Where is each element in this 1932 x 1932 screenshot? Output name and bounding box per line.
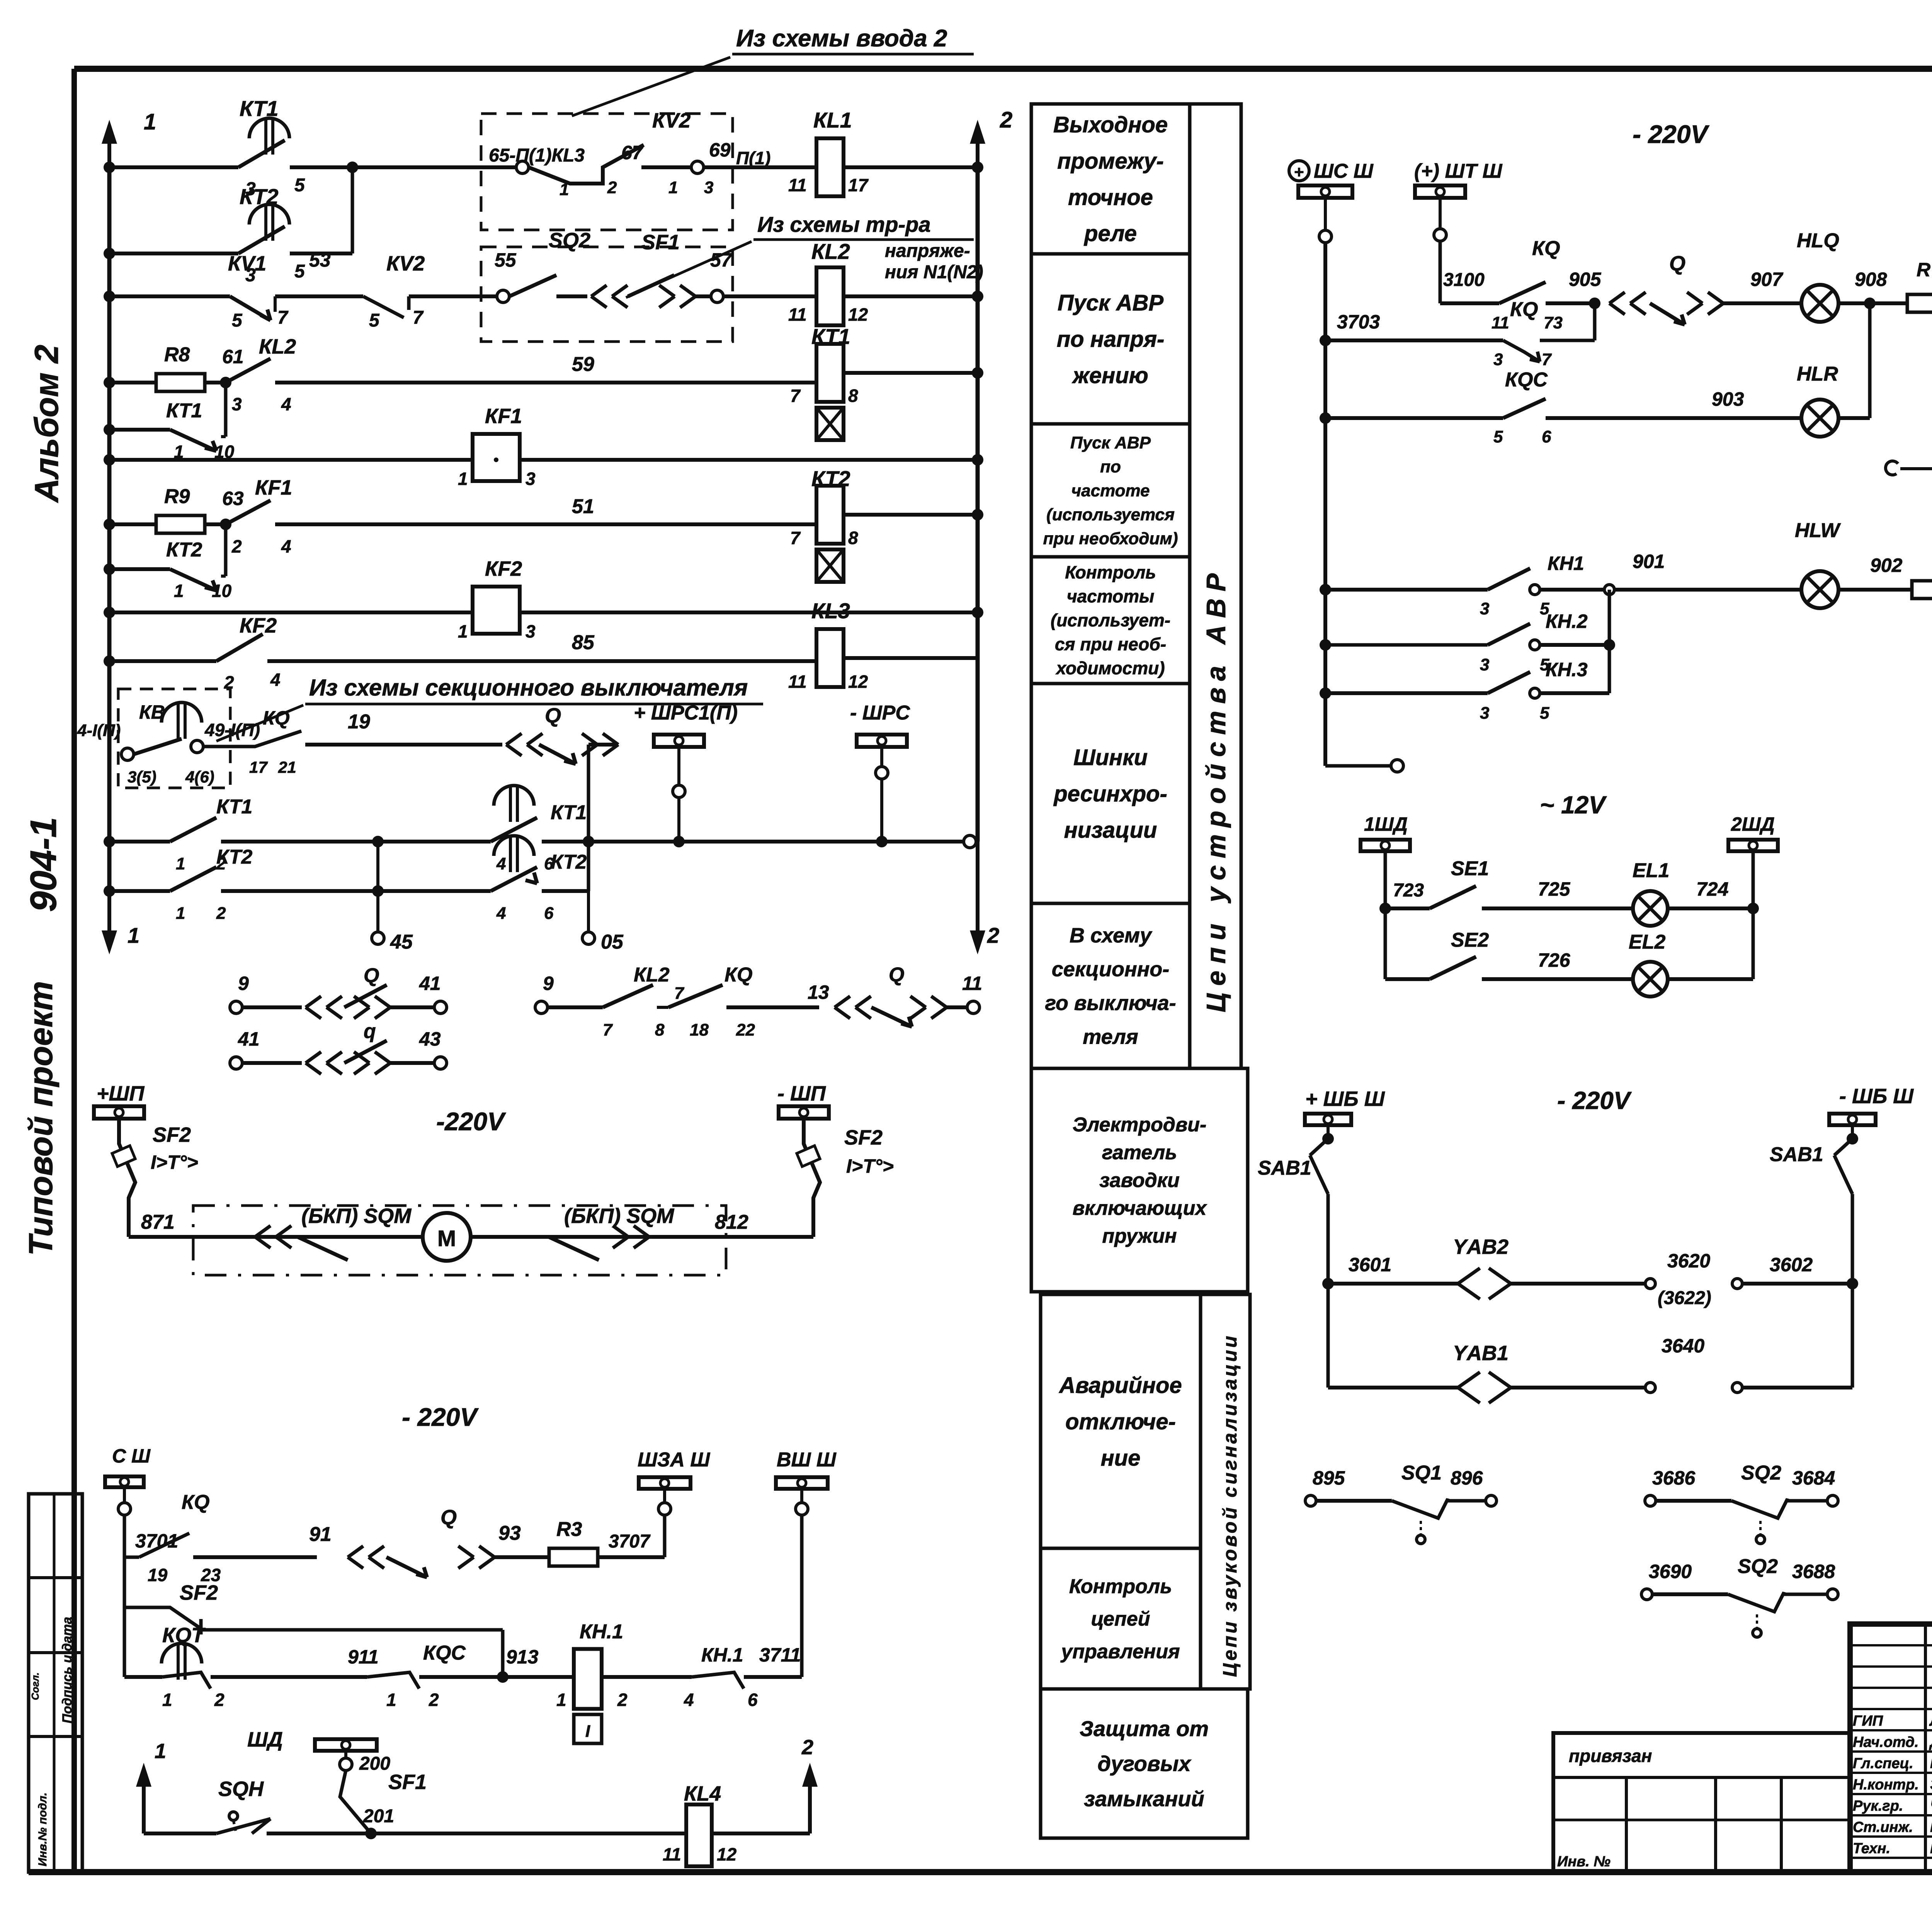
- svg-text:Ст.инж.: Ст.инж.: [1853, 1819, 1913, 1835]
- svg-text:200: 200: [359, 1753, 390, 1774]
- svg-text:12: 12: [848, 304, 868, 325]
- svg-text:2: 2: [214, 1690, 224, 1710]
- svg-text:Из схемы ввода 2: Из схемы ввода 2: [736, 25, 947, 52]
- svg-text:91: 91: [309, 1523, 332, 1546]
- svg-text:3684: 3684: [1792, 1467, 1835, 1489]
- svg-text:17: 17: [249, 758, 268, 776]
- svg-text:59: 59: [572, 353, 594, 376]
- svg-text:КF1: КF1: [485, 405, 522, 428]
- svg-text:(используется: (используется: [1046, 505, 1175, 524]
- svg-text:Цепи устройства АВР: Цепи устройства АВР: [1201, 566, 1231, 1012]
- svg-text:КL2: КL2: [259, 335, 296, 358]
- svg-text:871: 871: [141, 1211, 175, 1233]
- svg-text:3686: 3686: [1652, 1467, 1696, 1489]
- svg-text:SАВ1: SАВ1: [1258, 1157, 1311, 1179]
- svg-text:КL2: КL2: [811, 239, 850, 264]
- svg-text:1: 1: [174, 581, 184, 601]
- svg-text:I>Т°>: I>Т°>: [846, 1155, 894, 1177]
- svg-text:КQС: КQС: [1505, 369, 1548, 391]
- svg-text:R3: R3: [556, 1518, 582, 1541]
- svg-text:3602: 3602: [1770, 1254, 1813, 1276]
- svg-text:SF2: SF2: [180, 1581, 218, 1604]
- svg-text:КТ1: КТ1: [216, 796, 252, 818]
- svg-text:5: 5: [294, 261, 305, 282]
- svg-text:+ ШБ Ш: + ШБ Ш: [1305, 1087, 1385, 1111]
- svg-text:2: 2: [216, 904, 226, 923]
- svg-text:3100: 3100: [1443, 270, 1485, 290]
- svg-text:1: 1: [458, 469, 468, 489]
- svg-text:3: 3: [1480, 704, 1489, 723]
- svg-text:(использует-: (использует-: [1051, 610, 1170, 630]
- svg-text:Золотарева: Золотарева: [1930, 1776, 1932, 1793]
- svg-text:Q: Q: [1669, 252, 1685, 275]
- svg-text:SF1: SF1: [388, 1770, 427, 1794]
- svg-text:6: 6: [748, 1690, 758, 1710]
- svg-text:9: 9: [543, 973, 554, 994]
- svg-text:725: 725: [1538, 878, 1571, 900]
- svg-text:SQ2: SQ2: [1741, 1462, 1781, 1484]
- svg-text:КН.3: КН.3: [1546, 659, 1588, 680]
- svg-text:+ ШРС1(П): + ШРС1(П): [634, 702, 738, 724]
- svg-text:SАВ1: SАВ1: [1770, 1143, 1823, 1166]
- svg-text:2: 2: [231, 536, 242, 556]
- svg-text:ВШ Ш: ВШ Ш: [777, 1449, 837, 1471]
- svg-text:2: 2: [607, 178, 617, 197]
- svg-text:Чалны: Чалны: [1930, 1797, 1932, 1814]
- svg-text:Альбом 2: Альбом 2: [28, 345, 65, 503]
- svg-text:+ШП: +ШП: [97, 1082, 145, 1105]
- svg-text:724: 724: [1696, 878, 1728, 900]
- svg-text:895: 895: [1313, 1467, 1345, 1489]
- svg-text:- ШБ Ш: - ШБ Ш: [1839, 1085, 1914, 1108]
- svg-text:SЕ1: SЕ1: [1451, 857, 1489, 880]
- svg-text:Q: Q: [545, 704, 561, 727]
- svg-text:КL4: КL4: [684, 1782, 721, 1805]
- svg-text:КF2: КF2: [240, 614, 277, 637]
- svg-text:41: 41: [419, 973, 441, 994]
- svg-text:Электродви-: Электродви-: [1073, 1114, 1207, 1136]
- svg-text:Из схемы секционного выключате: Из схемы секционного выключателя: [309, 675, 748, 701]
- svg-text:пружин: пружин: [1102, 1225, 1177, 1247]
- svg-text:901: 901: [1633, 551, 1665, 572]
- svg-text:+: +: [1294, 163, 1304, 182]
- svg-text:904-1: 904-1: [23, 817, 64, 912]
- svg-text:С Ш: С Ш: [112, 1445, 151, 1467]
- svg-text:КТ2: КТ2: [551, 851, 587, 873]
- svg-text:896: 896: [1451, 1467, 1483, 1489]
- svg-text:2: 2: [801, 1736, 813, 1759]
- svg-text:911: 911: [348, 1646, 379, 1668]
- svg-text:I>Т°>: I>Т°>: [151, 1151, 198, 1173]
- svg-text:Типовой проект: Типовой проект: [22, 981, 60, 1256]
- svg-text:93: 93: [498, 1522, 521, 1544]
- svg-text:q: q: [364, 1020, 376, 1043]
- svg-text:41: 41: [238, 1028, 260, 1050]
- svg-text:КQ: КQ: [1532, 237, 1560, 260]
- svg-text:4(6): 4(6): [185, 768, 214, 786]
- svg-text:Шинки: Шинки: [1073, 745, 1148, 770]
- svg-text:Гл.спец.: Гл.спец.: [1853, 1755, 1913, 1772]
- svg-text:НLQ: НLQ: [1797, 230, 1839, 252]
- svg-text:R8: R8: [164, 344, 190, 366]
- svg-text:КТ1: КТ1: [240, 96, 278, 121]
- svg-text:КF1: КF1: [255, 476, 292, 499]
- svg-text:3703: 3703: [1337, 311, 1380, 333]
- svg-text:теля: теля: [1083, 1026, 1138, 1049]
- svg-text:3707: 3707: [609, 1531, 651, 1552]
- svg-text:11: 11: [788, 672, 807, 692]
- svg-text:точное: точное: [1068, 185, 1153, 210]
- svg-text:3640: 3640: [1662, 1335, 1704, 1357]
- svg-text:55: 55: [495, 249, 517, 271]
- svg-text:7: 7: [1542, 350, 1552, 369]
- svg-text:КL3: КL3: [811, 599, 850, 623]
- svg-text:10: 10: [212, 581, 232, 601]
- svg-text:1: 1: [162, 1690, 172, 1710]
- svg-text:КQ: КQ: [263, 707, 290, 729]
- svg-text:22: 22: [736, 1020, 755, 1039]
- svg-text:7: 7: [790, 386, 801, 406]
- svg-text:КТ2: КТ2: [166, 539, 202, 561]
- svg-text:21: 21: [278, 758, 296, 776]
- svg-text:ся при необ-: ся при необ-: [1055, 634, 1166, 654]
- svg-text:(+) ШТ Ш: (+) ШТ Ш: [1414, 160, 1503, 182]
- svg-text:Подпись и дата: Подпись и дата: [60, 1617, 75, 1723]
- svg-text:3(5): 3(5): [128, 768, 156, 786]
- svg-text:63: 63: [222, 488, 244, 509]
- svg-text:Согл.: Согл.: [29, 1672, 41, 1700]
- svg-text:НLR: НLR: [1797, 363, 1838, 385]
- svg-text:YАВ1: YАВ1: [1453, 1342, 1509, 1365]
- svg-text:43: 43: [419, 1028, 441, 1050]
- svg-text:3: 3: [704, 178, 713, 197]
- svg-text:по напря-: по напря-: [1057, 327, 1165, 352]
- svg-text:1: 1: [668, 178, 678, 197]
- svg-text:ние: ние: [1101, 1446, 1141, 1471]
- svg-text:Горстка: Горстка: [1930, 1840, 1932, 1857]
- svg-text:812: 812: [715, 1211, 748, 1233]
- svg-text:201: 201: [363, 1806, 394, 1827]
- svg-text:11: 11: [962, 973, 982, 994]
- svg-text:замыканий: замыканий: [1084, 1786, 1204, 1811]
- svg-text:1: 1: [386, 1690, 396, 1710]
- svg-text:КТ1: КТ1: [811, 324, 850, 349]
- svg-text:(БКП) SQМ: (БКП) SQМ: [564, 1204, 674, 1228]
- svg-text:Q: Q: [889, 964, 904, 986]
- svg-text:КQ: КQ: [724, 964, 752, 986]
- svg-text:908: 908: [1855, 269, 1887, 290]
- svg-text:9: 9: [238, 973, 249, 994]
- svg-text:отключе-: отключе-: [1065, 1409, 1176, 1434]
- svg-text:НLW: НLW: [1795, 519, 1841, 542]
- svg-text:- ШРС: - ШРС: [850, 702, 910, 724]
- svg-text:907: 907: [1750, 269, 1784, 290]
- svg-text:при необходим): при необходим): [1043, 529, 1178, 548]
- svg-text:Инв. №: Инв. №: [1557, 1854, 1611, 1870]
- svg-text:45: 45: [390, 931, 413, 953]
- svg-text:8: 8: [848, 386, 858, 406]
- svg-text:жению: жению: [1071, 363, 1148, 388]
- svg-text:8: 8: [655, 1020, 665, 1039]
- svg-text:1: 1: [155, 1740, 166, 1763]
- svg-text:19: 19: [348, 711, 370, 733]
- svg-text:гатель: гатель: [1102, 1141, 1177, 1164]
- svg-text:~ 12V: ~ 12V: [1540, 791, 1607, 819]
- svg-text:частоте: частоте: [1071, 481, 1150, 500]
- svg-text:ния N1(N2): ния N1(N2): [885, 262, 983, 282]
- svg-text:1: 1: [556, 1690, 566, 1710]
- svg-text:SQН: SQН: [218, 1777, 264, 1801]
- svg-text:65-П(1)КL3: 65-П(1)КL3: [489, 145, 585, 166]
- svg-text:секционно-: секционно-: [1052, 958, 1170, 981]
- svg-text:7: 7: [790, 528, 801, 548]
- svg-text:11: 11: [788, 175, 807, 195]
- svg-text:903: 903: [1712, 388, 1744, 410]
- svg-text:4: 4: [496, 854, 506, 873]
- svg-text:5: 5: [369, 310, 380, 331]
- svg-text:1: 1: [128, 923, 139, 947]
- svg-text:КQС: КQС: [423, 1642, 466, 1664]
- svg-text:SF1: SF1: [641, 231, 680, 254]
- svg-text:ШС Ш: ШС Ш: [1314, 160, 1374, 182]
- svg-text:Контроль: Контроль: [1069, 1575, 1172, 1598]
- svg-text:7: 7: [413, 308, 424, 328]
- svg-text:привязан: привязан: [1569, 1746, 1652, 1766]
- svg-text:11: 11: [1492, 313, 1509, 332]
- svg-text:726: 726: [1538, 949, 1571, 971]
- svg-text:13: 13: [808, 981, 829, 1003]
- svg-text:1: 1: [458, 621, 468, 641]
- svg-text:ходимости): ходимости): [1055, 658, 1165, 678]
- svg-text:Нач.отд.: Нач.отд.: [1853, 1734, 1918, 1750]
- svg-text:- 220V: - 220V: [402, 1403, 479, 1431]
- svg-text:Из схемы тр-ра: Из схемы тр-ра: [757, 212, 931, 236]
- svg-text:КQ: КQ: [1510, 298, 1538, 321]
- svg-text:Цепи звуковой сигнализации: Цепи звуковой сигнализации: [1219, 1333, 1241, 1677]
- svg-text:SQ2: SQ2: [1738, 1555, 1778, 1578]
- svg-text:КН.1: КН.1: [701, 1644, 743, 1666]
- svg-text:КТ2: КТ2: [240, 184, 278, 209]
- svg-text:YАВ2: YАВ2: [1453, 1235, 1509, 1259]
- svg-text:5: 5: [1493, 427, 1503, 446]
- svg-text:управления: управления: [1060, 1640, 1180, 1663]
- svg-text:Нашельский: Нашельский: [1930, 1755, 1932, 1772]
- svg-text:53: 53: [309, 249, 331, 271]
- svg-text:3601: 3601: [1349, 1254, 1391, 1276]
- svg-text:включающих: включающих: [1073, 1197, 1207, 1219]
- svg-text:R9: R9: [164, 485, 190, 508]
- svg-text:КV1: КV1: [228, 252, 266, 275]
- svg-text:Техн.: Техн.: [1853, 1840, 1890, 1857]
- svg-text:3: 3: [526, 621, 536, 641]
- svg-text:КL2: КL2: [634, 964, 670, 986]
- svg-text:SF2: SF2: [844, 1126, 883, 1149]
- svg-text:1ШД: 1ШД: [1364, 813, 1408, 835]
- svg-text:Q: Q: [440, 1506, 457, 1529]
- svg-text:73: 73: [1544, 313, 1563, 332]
- svg-text:промежу-: промежу-: [1057, 148, 1164, 173]
- svg-text:5: 5: [232, 310, 243, 331]
- svg-text:4-I(П): 4-I(П): [77, 721, 121, 740]
- svg-text:Пуск АВР: Пуск АВР: [1058, 290, 1164, 315]
- svg-text:ШЗА Ш: ШЗА Ш: [638, 1449, 710, 1471]
- svg-text:2: 2: [1000, 107, 1012, 133]
- svg-text:3690: 3690: [1649, 1561, 1692, 1582]
- svg-text:SQ2: SQ2: [549, 229, 590, 252]
- svg-text:В схему: В схему: [1070, 924, 1153, 947]
- svg-text:ШД: ШД: [247, 1728, 283, 1751]
- svg-text:напряже-: напряже-: [885, 241, 970, 261]
- svg-text:4: 4: [281, 536, 291, 556]
- svg-text:2ШД: 2ШД: [1731, 813, 1775, 835]
- svg-text:4: 4: [684, 1690, 694, 1710]
- svg-text:1: 1: [176, 904, 185, 923]
- svg-text:(3622): (3622): [1658, 1288, 1711, 1308]
- svg-text:КТ1: КТ1: [166, 400, 202, 422]
- svg-text:М: М: [437, 1226, 456, 1251]
- svg-text:ЕL2: ЕL2: [1629, 931, 1665, 953]
- svg-text:КТ2: КТ2: [216, 846, 252, 868]
- svg-text:реле: реле: [1083, 221, 1137, 246]
- svg-text:7: 7: [277, 308, 289, 328]
- svg-text:П(1): П(1): [736, 148, 770, 168]
- svg-text:51: 51: [572, 495, 594, 518]
- svg-text:- 220V: - 220V: [1633, 120, 1709, 148]
- svg-text:I: I: [585, 1722, 590, 1741]
- svg-text:4: 4: [496, 904, 506, 923]
- svg-text:4: 4: [281, 394, 291, 414]
- svg-text:Q: Q: [364, 964, 379, 987]
- svg-text:SF2: SF2: [153, 1123, 191, 1146]
- svg-text:67: 67: [621, 142, 644, 163]
- svg-text:КQ: КQ: [182, 1491, 209, 1514]
- svg-text:11: 11: [788, 304, 807, 325]
- svg-text:19: 19: [148, 1565, 168, 1585]
- svg-text:902: 902: [1870, 554, 1903, 576]
- svg-text:8: 8: [848, 528, 858, 548]
- svg-text:по: по: [1100, 457, 1121, 476]
- svg-text:2: 2: [987, 923, 999, 947]
- svg-text:723: 723: [1393, 880, 1424, 901]
- svg-text:3688: 3688: [1792, 1561, 1835, 1582]
- svg-text:3: 3: [526, 469, 536, 489]
- svg-text:КТ2: КТ2: [811, 466, 850, 491]
- svg-text:69: 69: [709, 139, 731, 161]
- svg-text:дуговых: дуговых: [1097, 1752, 1192, 1776]
- svg-text:Н.контр.: Н.контр.: [1853, 1777, 1919, 1793]
- svg-text:18: 18: [690, 1020, 709, 1039]
- svg-text:Пуск АВР: Пуск АВР: [1070, 433, 1151, 452]
- svg-text:1: 1: [176, 854, 185, 873]
- svg-text:905: 905: [1569, 269, 1602, 290]
- svg-text:05: 05: [601, 931, 624, 953]
- svg-text:Кравцова: Кравцова: [1930, 1818, 1932, 1835]
- svg-text:7: 7: [603, 1020, 613, 1039]
- svg-text:Инв.№ подл.: Инв.№ подл.: [36, 1793, 49, 1866]
- svg-text:Рук.гр.: Рук.гр.: [1853, 1798, 1903, 1814]
- svg-text:низации: низации: [1064, 818, 1157, 843]
- svg-text:- ШП: - ШП: [777, 1082, 826, 1105]
- svg-text:КV2: КV2: [652, 109, 690, 132]
- svg-text:КН.1: КН.1: [580, 1621, 623, 1643]
- svg-text:- 220V: - 220V: [1557, 1087, 1632, 1114]
- svg-text:85: 85: [572, 631, 595, 654]
- svg-text:913: 913: [506, 1646, 539, 1668]
- svg-text:5: 5: [294, 175, 305, 196]
- svg-text:12: 12: [717, 1844, 737, 1864]
- svg-text:КL1: КL1: [813, 108, 852, 132]
- svg-text:КТ1: КТ1: [551, 801, 587, 824]
- svg-text:2: 2: [429, 1690, 439, 1710]
- svg-text:SQ1: SQ1: [1401, 1462, 1442, 1484]
- svg-text:3: 3: [1480, 599, 1489, 618]
- svg-text:3711: 3711: [759, 1644, 801, 1666]
- svg-text:Защита от: Защита от: [1080, 1716, 1209, 1741]
- svg-text:-220V: -220V: [436, 1107, 506, 1136]
- svg-text:2: 2: [617, 1690, 628, 1710]
- svg-text:ГИП: ГИП: [1853, 1713, 1883, 1729]
- svg-text:заводки: заводки: [1099, 1169, 1180, 1192]
- svg-text:Аварийное: Аварийное: [1058, 1373, 1182, 1398]
- svg-text:61: 61: [222, 346, 244, 367]
- svg-text:Контроль: Контроль: [1065, 562, 1156, 582]
- svg-text:SЕ2: SЕ2: [1451, 929, 1489, 951]
- svg-text:17: 17: [848, 175, 869, 195]
- svg-text:11: 11: [663, 1844, 681, 1864]
- svg-text:6: 6: [544, 904, 554, 923]
- svg-text:3620: 3620: [1667, 1250, 1710, 1272]
- svg-text:цепей: цепей: [1091, 1608, 1150, 1630]
- svg-text:Выходное: Выходное: [1053, 112, 1168, 137]
- svg-text:5: 5: [1540, 704, 1549, 723]
- svg-text:частоты: частоты: [1067, 586, 1155, 606]
- svg-text:6: 6: [1542, 427, 1551, 446]
- svg-text:КF2: КF2: [485, 557, 522, 580]
- svg-text:RЧ: RЧ: [1917, 259, 1932, 281]
- svg-text:12: 12: [848, 672, 868, 692]
- svg-text:(БКП) SQМ: (БКП) SQМ: [301, 1204, 412, 1228]
- svg-text:4: 4: [270, 670, 281, 690]
- svg-text:3: 3: [1480, 655, 1489, 674]
- svg-text:1: 1: [144, 109, 156, 134]
- svg-text:3: 3: [1493, 350, 1503, 369]
- svg-text:КV2: КV2: [386, 252, 425, 275]
- svg-text:ресинхро-: ресинхро-: [1053, 781, 1167, 806]
- svg-text:3: 3: [232, 394, 242, 414]
- svg-text:ЕL1: ЕL1: [1633, 859, 1669, 882]
- svg-text:КН.2: КН.2: [1546, 611, 1588, 632]
- svg-text:49-I(П): 49-I(П): [204, 720, 260, 740]
- svg-text:го выключа-: го выключа-: [1045, 992, 1176, 1015]
- svg-text:КН1: КН1: [1548, 553, 1584, 574]
